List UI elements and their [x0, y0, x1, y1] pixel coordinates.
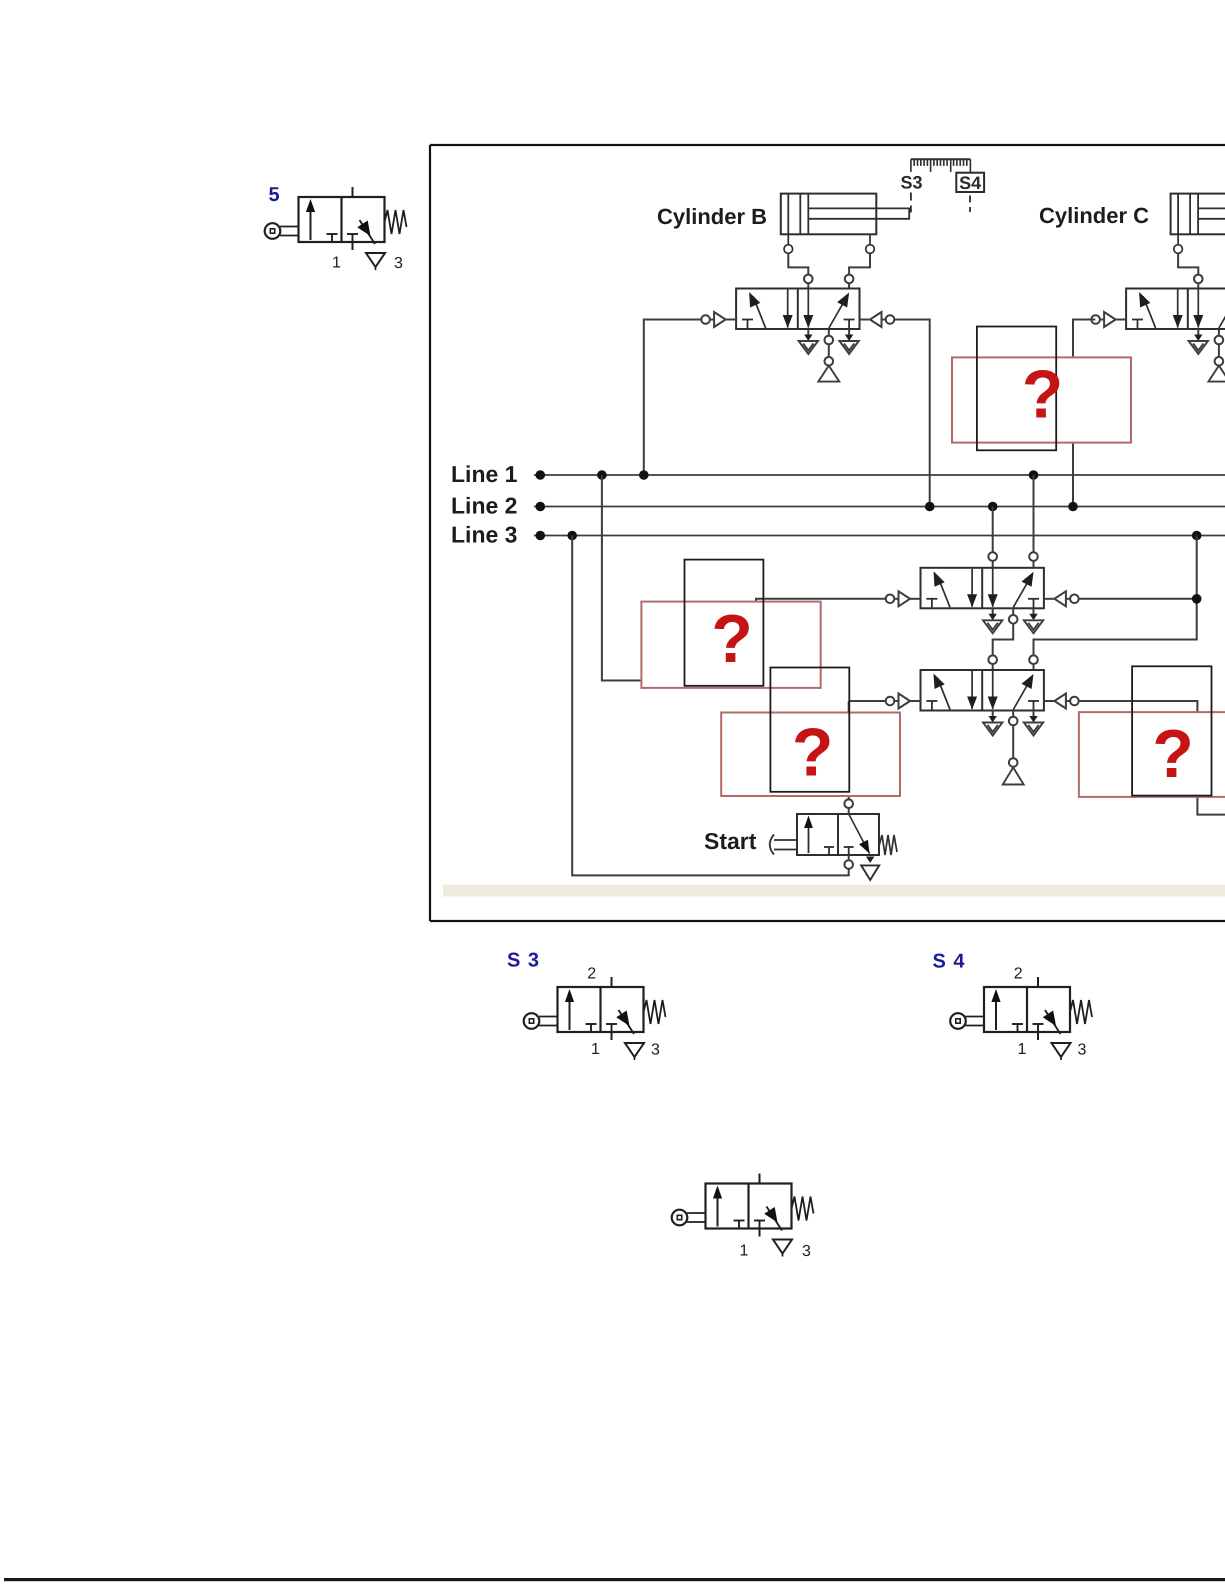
- black outline box top: [977, 327, 1056, 451]
- Line 1: [534, 474, 1225, 476]
- svg-text:S 4: S 4: [933, 951, 966, 973]
- start valve (3/2 pushbutton, spring return): [770, 814, 897, 855]
- valve 1 right pilot: [1044, 591, 1079, 606]
- valve B supply source: [818, 329, 839, 382]
- svg-text:1: 1: [740, 1243, 749, 1260]
- svg-text:1: 1: [591, 1041, 600, 1058]
- valve B right pilot: [860, 312, 895, 327]
- svg-text:Line 3: Line 3: [451, 522, 517, 548]
- wire valve 1 right pilot to Line 3 riser: [1079, 598, 1197, 600]
- svg-text:1: 1: [1018, 1041, 1027, 1058]
- frame border of circuit window: [430, 145, 1225, 921]
- cylinder B (double acting): [781, 194, 909, 254]
- wire cylinder C left port to valve C port 4: [1178, 253, 1203, 288]
- wire cylinder B left port to valve B port 4: [788, 253, 812, 288]
- svg-text:S 3: S 3: [507, 950, 540, 972]
- junction dot Line 1 / valve B pilot branch: [639, 470, 649, 480]
- wire Line 1 down to hidden valve (red box 1): [602, 475, 642, 681]
- svg-text:Start: Start: [704, 828, 757, 854]
- wire valve B left pilot to Line 1: [644, 320, 702, 476]
- black outline box bottom middle: [770, 668, 849, 792]
- svg-text:S3: S3: [901, 173, 923, 193]
- valve 2 (5/2 double pilot, lower middle): [921, 670, 1044, 711]
- svg-text:2: 2: [587, 966, 596, 983]
- svg-text:5: 5: [269, 184, 280, 206]
- valve 2 supply source: [1003, 711, 1024, 785]
- valve 1 exhaust 3: [1024, 608, 1043, 633]
- wire valve 1 supply from valve 2 port 4: [988, 608, 1017, 670]
- start valve top port connector: [848, 808, 850, 814]
- junction dot valve1 pilot riser: [1192, 594, 1202, 604]
- svg-text:Line 2: Line 2: [451, 493, 517, 519]
- svg-text:3: 3: [802, 1243, 811, 1260]
- valve C (5/2 double pilot, cropped): [1126, 289, 1225, 330]
- svg-text:?: ?: [711, 601, 753, 677]
- junction dot Line 1 end: [536, 470, 546, 480]
- sensor box S4: [956, 173, 984, 192]
- valve S3 (3/2 roller valve): [524, 977, 666, 1060]
- valve C supply source: [1208, 329, 1225, 382]
- svg-text:3: 3: [651, 1042, 660, 1059]
- S4 dashed pointer: [969, 195, 971, 212]
- start valve exhaust: [866, 857, 874, 864]
- junction dot Line 3 end: [536, 531, 546, 541]
- svg-text:1: 1: [332, 255, 341, 272]
- svg-text:3: 3: [394, 255, 403, 272]
- Line 2: [534, 506, 1225, 508]
- valve B exhaust 5: [799, 329, 818, 354]
- wire valve 1 left pilot from hidden valve: [756, 599, 886, 602]
- valve C exhaust 5: [1189, 329, 1208, 354]
- svg-text:2: 2: [1014, 966, 1023, 983]
- wire start valve port 1 to Line 3: [572, 536, 849, 876]
- S3 dashed pointer: [910, 193, 912, 213]
- valve 1 (5/2 double pilot, middle): [921, 568, 1044, 609]
- valve 1 left pilot: [886, 591, 921, 606]
- wire Line 1 down to valve 1 port 2: [1029, 475, 1038, 568]
- valve 2 exhaust 3: [1024, 711, 1043, 736]
- junction dot Line 1 / valve 1 port 2 branch: [1029, 470, 1039, 480]
- svg-text:?: ?: [1152, 716, 1194, 792]
- valve S4 (3/2 roller valve): [950, 977, 1092, 1060]
- svg-text:Cylinder B: Cylinder B: [657, 204, 767, 229]
- cylinder C (double acting, cropped): [1171, 194, 1225, 254]
- junction dot Line 2 / valve 1 port 4 branch: [988, 502, 998, 512]
- valve B left pilot: [701, 312, 736, 327]
- valve 2 left pilot: [886, 694, 921, 709]
- wire valve 2 left pilot from start valve branch: [844, 701, 886, 808]
- riser Line 3 to valve 2 port 2: [1029, 536, 1197, 671]
- junction dot Line 3 / start valve branch: [567, 531, 577, 541]
- start valve flow arrow heads: [804, 816, 813, 829]
- svg-text:?: ?: [1022, 357, 1064, 433]
- unlabeled valve (3/2 roller valve, bottom): [672, 1174, 814, 1257]
- wire valve 2 right pilot to hidden valve (red box 3): [1079, 701, 1225, 815]
- black outline box bottom right: [1132, 666, 1211, 795]
- valve B (5/2 double pilot): [736, 289, 859, 330]
- svg-text:Line 1: Line 1: [451, 461, 518, 487]
- start valve bottom port connector: [844, 855, 853, 869]
- Line 3: [534, 535, 1225, 537]
- svg-text:Cylinder C: Cylinder C: [1039, 203, 1149, 228]
- valve B exhaust 3: [839, 329, 858, 354]
- black outline box left: [685, 560, 764, 686]
- valve C left pilot: [1091, 312, 1126, 327]
- wire valve B right pilot to Line 2: [894, 320, 929, 507]
- svg-text:S4: S4: [959, 173, 981, 193]
- svg-text:?: ?: [792, 715, 834, 791]
- red quiz box left: [641, 602, 820, 688]
- red quiz box bottom right: [1079, 712, 1225, 797]
- beige status band: [443, 885, 1225, 897]
- wire cylinder B right port to valve B port 2: [845, 253, 870, 288]
- junction dot Line 2 / valve C pilot branch: [1068, 502, 1078, 512]
- red quiz box bottom middle: [721, 713, 900, 797]
- valve 2 right pilot: [1044, 694, 1079, 709]
- valve 5 (3/2 roller valve, spring return): [265, 187, 407, 270]
- junction dot Line 1 / hidden valve branch: [597, 470, 607, 480]
- bottom page rule: [4, 1578, 1225, 1581]
- red quiz box top (cylinder C pilot valve): [952, 357, 1131, 442]
- junction dot Line 2 end: [536, 502, 546, 512]
- junction dot Line 3 / right riser: [1192, 531, 1202, 541]
- valve 2 exhaust 5: [983, 711, 1002, 736]
- wire valve C left pilot to Line 2: [1073, 320, 1095, 507]
- svg-text:3: 3: [1078, 1042, 1087, 1059]
- ruler scale above cylinder B: [911, 159, 971, 173]
- valve 1 exhaust 5: [983, 608, 1002, 633]
- wire Line 2 down to valve 1 port 4: [988, 507, 997, 568]
- junction dot Line 2 / valve B right pilot branch: [925, 502, 935, 512]
